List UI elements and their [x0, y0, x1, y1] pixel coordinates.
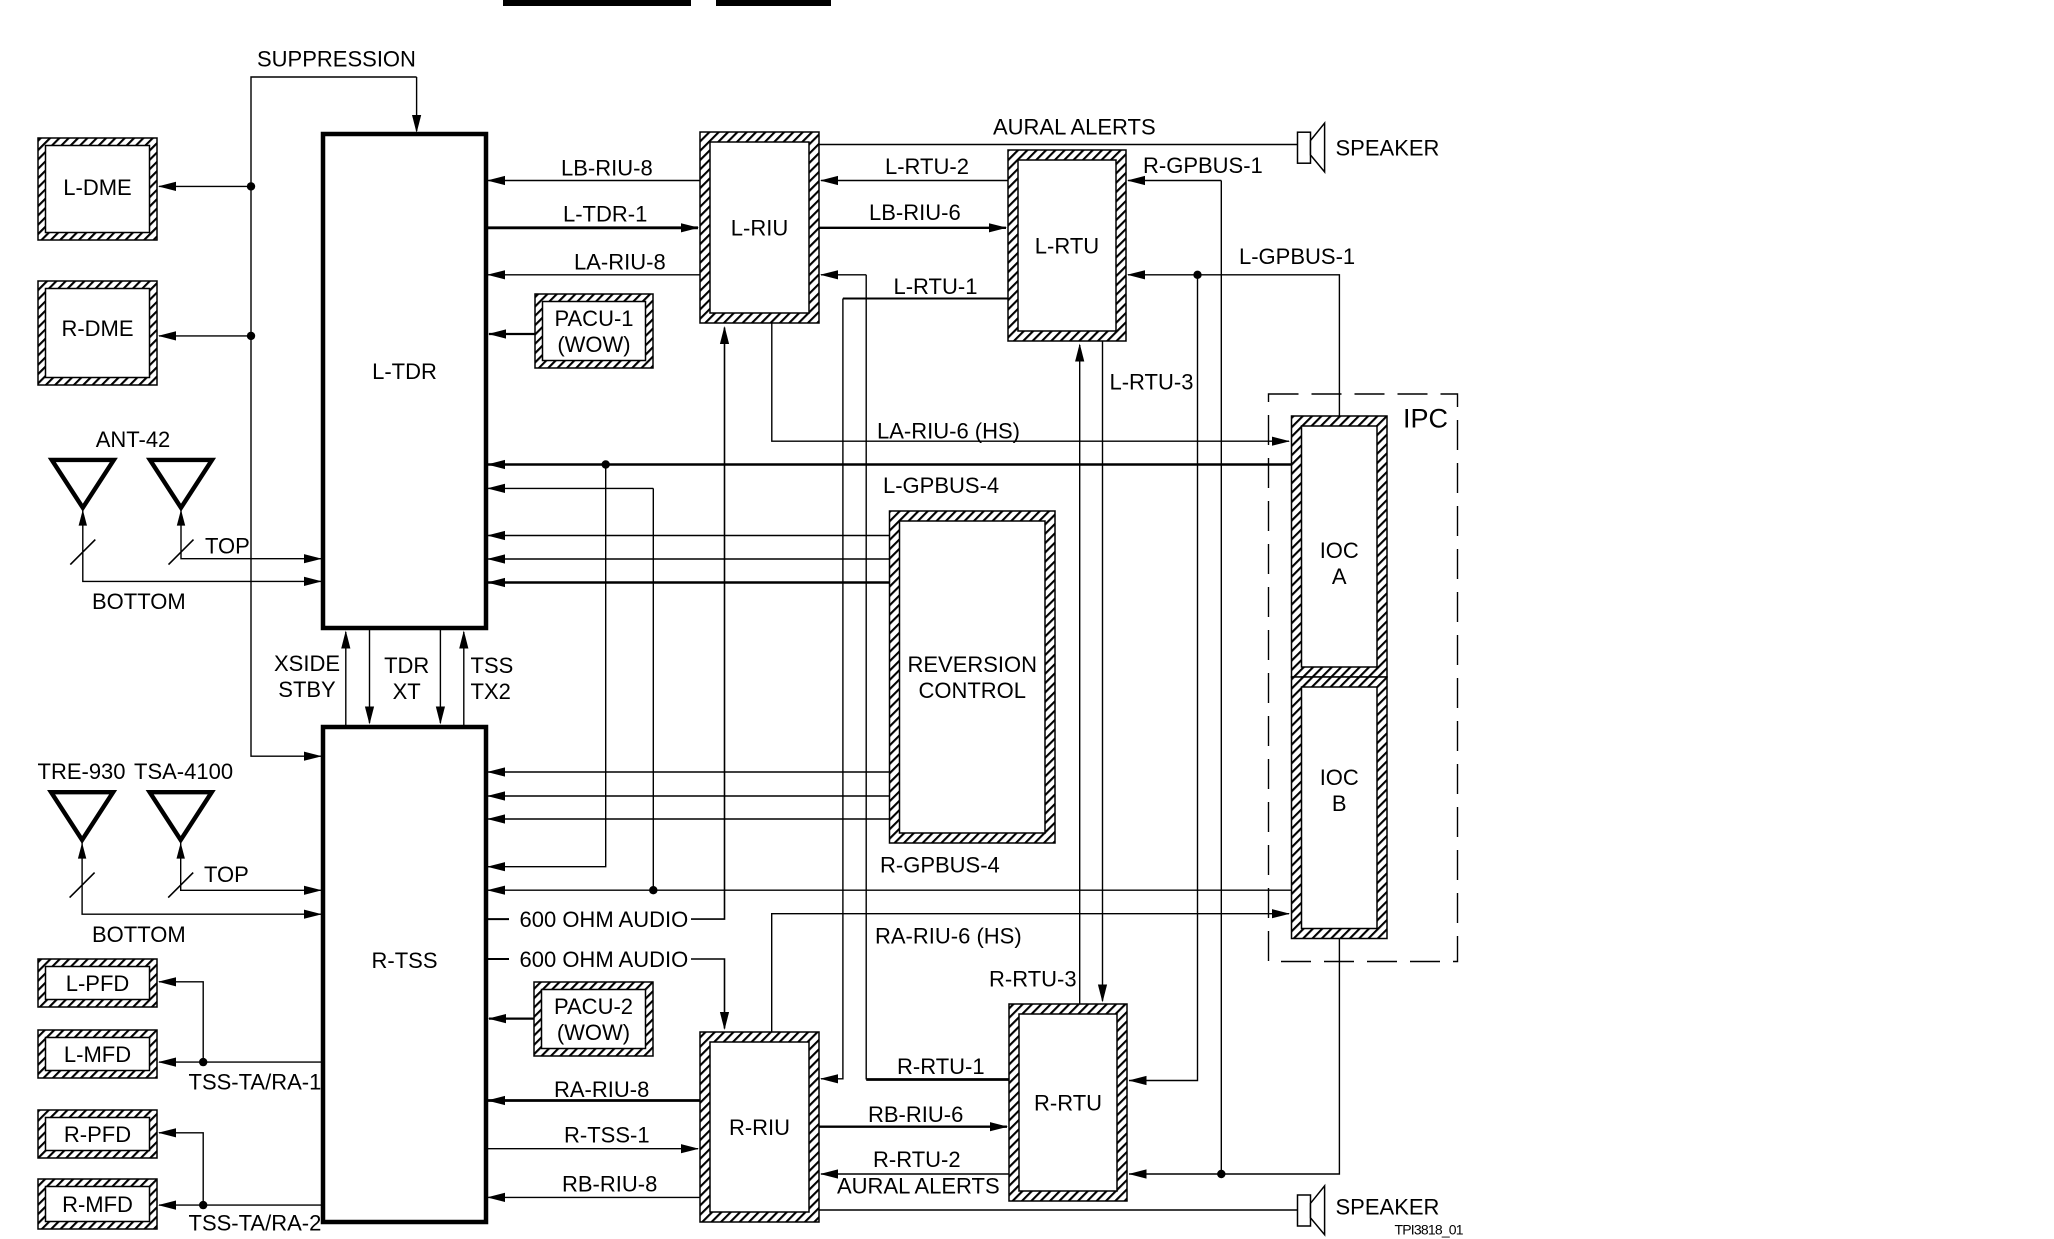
label L-GPBUS-4	[883, 473, 999, 498]
svg-text:RA-RIU-8: RA-RIU-8	[554, 1077, 649, 1102]
wire suppression branch to R-DME	[158, 331, 255, 340]
wire LA-RIU-6 (HS) (L-RIU to IOC A)	[772, 323, 1290, 446]
svg-text:TSS-TA/RA-2: TSS-TA/RA-2	[189, 1211, 322, 1236]
svg-text:CONTROL: CONTROL	[918, 678, 1026, 703]
wire R-TSS-1 (R-TSS to R-RIU)	[486, 1123, 699, 1154]
unit L-RIU	[700, 132, 819, 323]
label R-GPBUS-4	[880, 853, 1000, 878]
svg-text:L-MFD: L-MFD	[64, 1042, 131, 1067]
wire antenna top (TSA-4100) to R-TSS TOP port	[168, 842, 322, 898]
svg-text:LB-RIU-6: LB-RIU-6	[869, 200, 961, 225]
wire AURAL ALERTS (R-RIU to speaker) with label	[819, 1174, 1297, 1210]
drawing number TPI3818_01	[1395, 1222, 1464, 1238]
svg-text:R-TSS-1: R-TSS-1	[564, 1123, 650, 1148]
svg-text:L-RIU: L-RIU	[731, 216, 788, 241]
unit REVERSION CONTROL	[890, 511, 1056, 843]
svg-text:SPEAKER: SPEAKER	[1336, 1195, 1440, 1220]
wire XSIDE STBY (R-TSS to L-TDR)	[274, 631, 350, 728]
svg-text:IOC: IOC	[1320, 538, 1359, 563]
wire R-GPBUS-4 line 3 (REVERSION CONTROL to R-TSS)	[487, 814, 890, 823]
svg-text:L-RTU: L-RTU	[1035, 234, 1099, 259]
svg-text:R-RTU-2: R-RTU-2	[873, 1147, 961, 1172]
wire TSS bus (IOC B to L-TDR and R-TSS)	[487, 484, 1292, 895]
wire L-RTU-3 (L-RTU to R-RTU)	[1098, 341, 1194, 1003]
svg-text:(WOW): (WOW)	[557, 332, 630, 357]
wire R-RTU-3 (R-RTU to L-RTU)	[989, 344, 1084, 1005]
svg-text:R-TSS: R-TSS	[372, 948, 438, 973]
svg-text:RA-RIU-6 (HS): RA-RIU-6 (HS)	[875, 924, 1022, 949]
svg-text:R-MFD: R-MFD	[62, 1192, 133, 1217]
svg-text:TPI3818_01: TPI3818_01	[1395, 1222, 1464, 1238]
svg-text:R-DME: R-DME	[61, 316, 133, 341]
wire L-RTU-1 (L-RTU to R-RIU)	[820, 274, 1008, 1084]
unit L-DME	[38, 138, 157, 240]
label TOP (lower antennas)	[204, 862, 249, 887]
display R-MFD	[38, 1179, 157, 1229]
svg-text:AURAL ALERTS: AURAL ALERTS	[837, 1174, 1000, 1199]
label TOP (upper antennas)	[205, 534, 250, 559]
wire R-RTU-2 (R-RTU to R-RIU)	[820, 1147, 1009, 1179]
svg-text:L-GPBUS-4: L-GPBUS-4	[883, 473, 999, 498]
svg-text:BOTTOM: BOTTOM	[92, 589, 186, 614]
wire TSS-TA/RA-2 (R-TSS to R-MFD and R-PFD)	[158, 1128, 323, 1235]
wire PACU-2 to R-TSS	[488, 1014, 534, 1023]
wire R-RTU-1 (R-RTU to L-RIU)	[820, 270, 1009, 1079]
wire LB-RIU-8 (L-RIU to L-TDR)	[487, 156, 700, 186]
wire antenna bottom (TRE-930) to R-TSS BOTTOM port	[70, 842, 322, 919]
wire antenna bottom (ANT-42 left) to L-TDR BOTTOM port	[70, 509, 322, 586]
svg-text:R-RTU-3: R-RTU-3	[989, 967, 1077, 992]
svg-text:XSIDE: XSIDE	[274, 651, 340, 676]
wire TSS TX2 (R-TSS to L-TDR)	[459, 631, 513, 728]
speaker bottom	[1298, 1186, 1440, 1235]
svg-text:R-RTU: R-RTU	[1034, 1091, 1102, 1116]
wire TDR XT line 2 (L-TDR to R-TSS)	[384, 628, 445, 725]
wire suppression branch to L-DME	[158, 182, 255, 191]
unit R-TSS	[323, 727, 486, 1222]
wire R-GPBUS-4 line 2 (REVERSION CONTROL to R-TSS)	[487, 791, 890, 800]
wire RA-RIU-8 (R-RIU to R-TSS)	[487, 1077, 700, 1105]
svg-text:IPC: IPC	[1403, 404, 1448, 434]
wire 600 OHM AUDIO (R-TSS to L-RIU)	[486, 326, 729, 932]
svg-text:L-RTU-1: L-RTU-1	[894, 274, 978, 299]
wire L-TDR-1 (L-TDR to L-RIU)	[486, 202, 699, 233]
svg-text:TOP: TOP	[204, 862, 249, 887]
label TRE-930	[38, 759, 126, 784]
svg-text:L-TDR-1: L-TDR-1	[563, 202, 647, 227]
antenna ANT-42 left (L-TDR bottom antenna)	[52, 460, 114, 508]
svg-text:R-GPBUS-1: R-GPBUS-1	[1143, 153, 1263, 178]
unit R-DME	[38, 281, 157, 385]
wire RB-RIU-6 (R-RIU to R-RTU)	[819, 1102, 1008, 1131]
svg-text:SUPPRESSION: SUPPRESSION	[257, 47, 416, 72]
svg-text:600 OHM AUDIO: 600 OHM AUDIO	[520, 947, 689, 972]
wire PACU-1 to L-TDR	[488, 329, 535, 338]
svg-text:(WOW): (WOW)	[557, 1020, 630, 1045]
wire AURAL ALERTS (L-RIU to speaker) with label	[819, 115, 1297, 145]
svg-text:600 OHM AUDIO: 600 OHM AUDIO	[520, 907, 689, 932]
unit L-RTU	[1008, 150, 1126, 341]
title underline bar 1	[503, 0, 691, 6]
wire SUPPRESSION bus with label	[251, 47, 421, 761]
wire LA-RIU-8 (L-RIU to L-TDR)	[487, 249, 700, 279]
label BOTTOM (upper antennas)	[92, 589, 186, 614]
svg-text:ANT-42: ANT-42	[96, 427, 171, 452]
unit L-TDR	[323, 134, 486, 628]
wire L-GPBUS-4 line 2 (REVERSION CONTROL to L-TDR)	[487, 554, 890, 563]
svg-text:LA-RIU-8: LA-RIU-8	[574, 249, 666, 274]
svg-text:SPEAKER: SPEAKER	[1336, 135, 1440, 160]
wire RB-RIU-8 (R-RIU to R-TSS)	[487, 1171, 700, 1202]
svg-text:R-GPBUS-4: R-GPBUS-4	[880, 853, 1000, 878]
svg-text:TRE-930: TRE-930	[38, 759, 126, 784]
svg-text:A: A	[1332, 564, 1347, 589]
unit PACU-2 (WOW)	[534, 982, 653, 1056]
wire TDR bus (IOC A to L-TDR and R-TSS)	[487, 460, 1292, 871]
svg-text:L-RTU-2: L-RTU-2	[885, 154, 969, 179]
title underline bar 2	[716, 0, 831, 6]
unit R-RTU	[1009, 1004, 1127, 1201]
svg-text:L-GPBUS-1: L-GPBUS-1	[1239, 244, 1355, 269]
antenna TSA-4100	[150, 792, 212, 840]
wire L-GPBUS-4 line 1 (REVERSION CONTROL to L-TDR)	[487, 531, 890, 540]
svg-text:PACU-2: PACU-2	[554, 994, 633, 1019]
unit R-RIU	[700, 1032, 819, 1222]
svg-text:STBY: STBY	[278, 677, 336, 702]
wire 600 OHM AUDIO (R-TSS to R-RIU)	[486, 947, 729, 1030]
svg-text:TX2: TX2	[471, 679, 511, 704]
wire antenna top (ANT-42 right) to L-TDR TOP port	[169, 509, 323, 565]
unit IOC A	[1292, 416, 1388, 677]
svg-text:REVERSION: REVERSION	[907, 652, 1037, 677]
svg-text:L-DME: L-DME	[63, 175, 131, 200]
wire R-GPBUS-1 (IOC B to L-RTU and R-RTU)	[1127, 153, 1339, 1179]
wire L-RTU-2 (L-RTU to L-RIU)	[820, 154, 1008, 185]
svg-text:TSS-TA/RA-1: TSS-TA/RA-1	[189, 1070, 322, 1095]
label BOTTOM (lower antennas)	[92, 922, 186, 947]
IPC enclosure (dashed) with label	[1269, 394, 1458, 962]
svg-text:R-PFD: R-PFD	[64, 1122, 131, 1147]
svg-text:IOC: IOC	[1320, 765, 1359, 790]
svg-text:AURAL ALERTS: AURAL ALERTS	[993, 115, 1156, 140]
wire L-GPBUS-4 line 3 (REVERSION CONTROL to L-TDR)	[487, 578, 890, 587]
svg-text:RB-RIU-8: RB-RIU-8	[562, 1171, 657, 1196]
svg-text:PACU-1: PACU-1	[554, 306, 633, 331]
svg-text:B: B	[1332, 791, 1347, 816]
label TSA-4100	[134, 759, 233, 784]
antenna ANT-42 right (L-TDR top antenna)	[150, 460, 212, 508]
svg-text:LA-RIU-6 (HS): LA-RIU-6 (HS)	[877, 419, 1020, 444]
wire TDR XT line 1 (L-TDR to R-TSS)	[365, 628, 374, 725]
antenna TRE-930	[51, 792, 113, 840]
svg-text:BOTTOM: BOTTOM	[92, 922, 186, 947]
svg-text:RB-RIU-6: RB-RIU-6	[868, 1102, 963, 1127]
svg-text:TDR: TDR	[384, 653, 429, 678]
svg-text:R-RIU: R-RIU	[729, 1115, 790, 1140]
display L-PFD	[38, 959, 157, 1007]
svg-text:XT: XT	[393, 679, 421, 704]
svg-text:LB-RIU-8: LB-RIU-8	[561, 156, 653, 181]
wire R-GPBUS-4 line 1 (REVERSION CONTROL to R-TSS)	[487, 767, 890, 776]
wire LB-RIU-6 (L-RIU to L-RTU)	[819, 200, 1007, 232]
label ANT-42	[96, 427, 171, 452]
svg-text:L-PFD: L-PFD	[66, 971, 130, 996]
svg-text:TSS: TSS	[471, 653, 514, 678]
unit IOC B	[1292, 677, 1388, 939]
speaker top	[1298, 123, 1440, 172]
svg-text:TOP: TOP	[205, 534, 250, 559]
svg-text:L-TDR: L-TDR	[372, 359, 437, 384]
display R-PFD	[38, 1110, 157, 1158]
unit PACU-1 (WOW)	[535, 294, 653, 368]
svg-text:R-RTU-1: R-RTU-1	[897, 1054, 985, 1079]
svg-text:TSA-4100: TSA-4100	[134, 759, 233, 784]
svg-text:L-RTU-3: L-RTU-3	[1110, 370, 1194, 395]
display L-MFD	[38, 1030, 157, 1078]
wire RA-RIU-6 (HS) (R-RIU to IOC B)	[772, 909, 1290, 1032]
wire L-GPBUS-1 (IOC A to L-RTU and R-RTU)	[1127, 244, 1355, 1085]
wire TSS-TA/RA-1 (R-TSS to L-MFD and L-PFD)	[158, 977, 323, 1094]
